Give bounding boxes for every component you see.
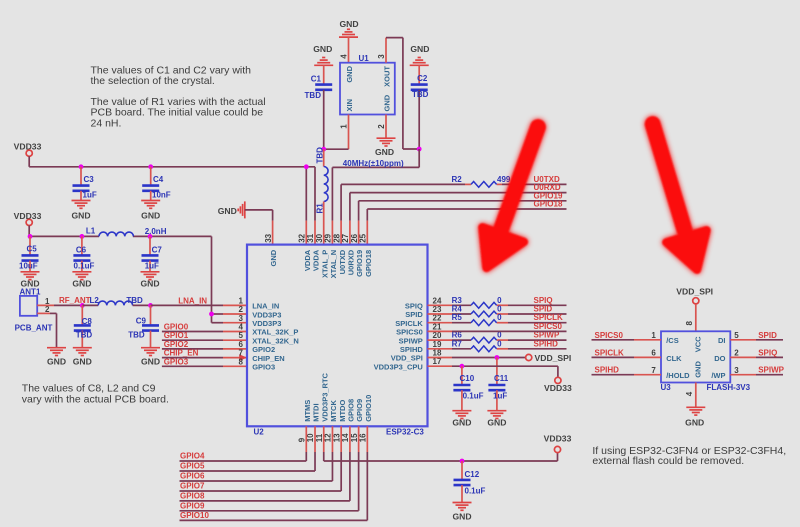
svg-text:11: 11 <box>315 433 324 442</box>
svg-text:CHIP_EN: CHIP_EN <box>164 349 199 358</box>
svg-text:GPIO19: GPIO19 <box>355 250 364 277</box>
svg-text:/HOLD: /HOLD <box>666 371 690 380</box>
svg-text:XTAL_N: XTAL_N <box>329 250 338 279</box>
wire GPIO3 stub <box>162 365 247 367</box>
svg-text:SPIQ: SPIQ <box>405 302 423 311</box>
svg-text:VDD_SPI: VDD_SPI <box>535 353 572 363</box>
net label GPIO6 <box>180 472 205 481</box>
svg-text:GND: GND <box>685 418 704 428</box>
svg-text:LNA_IN: LNA_IN <box>178 296 207 305</box>
svg-text:19: 19 <box>433 340 442 349</box>
svg-text:RF_ANT: RF_ANT <box>59 296 91 305</box>
wire GPIO8 <box>180 426 350 501</box>
svg-text:GPIO10: GPIO10 <box>364 395 373 422</box>
svg-text:32: 32 <box>298 233 307 242</box>
net label SPIQ (flash) <box>758 348 777 357</box>
svg-text:VDD3P3_RTC: VDD3P3_RTC <box>320 372 329 421</box>
wire flash SPID <box>730 339 783 341</box>
node junction C7 <box>148 234 153 239</box>
resistor R4 <box>452 305 503 317</box>
svg-text:16: 16 <box>359 433 368 442</box>
svg-text:24 nH.: 24 nH. <box>91 117 122 129</box>
svg-text:SPIWP: SPIWP <box>399 336 423 345</box>
crystal U1 <box>340 54 395 115</box>
svg-text:0.1uF: 0.1uF <box>463 391 484 400</box>
inductor R1 <box>315 147 328 245</box>
svg-text:MTDO: MTDO <box>338 400 347 422</box>
U3 pin names <box>666 336 725 380</box>
wire LNA_IN <box>151 304 248 306</box>
power port VDD_SPI (pin18) <box>526 353 572 363</box>
svg-text:1: 1 <box>651 331 656 340</box>
svg-text:GND: GND <box>141 211 160 221</box>
U2 left pin numbers <box>239 296 244 366</box>
svg-text:VDD33: VDD33 <box>544 434 572 444</box>
svg-text:GND: GND <box>218 206 237 216</box>
svg-text:TBD: TBD <box>412 90 429 99</box>
resistor R2 <box>452 175 511 187</box>
svg-text:GND: GND <box>452 512 471 522</box>
capacitor C10 <box>453 366 483 411</box>
resistor R5 <box>452 313 503 325</box>
svg-text:C3: C3 <box>84 175 95 184</box>
svg-text:GPIO18: GPIO18 <box>364 250 373 277</box>
node junction C3 <box>79 164 84 169</box>
svg-text:C12: C12 <box>465 470 480 479</box>
svg-text:ANT1: ANT1 <box>20 288 41 297</box>
svg-text:GPIO0: GPIO0 <box>164 323 189 332</box>
note about C1 C2 R1 values <box>91 65 266 130</box>
svg-text:R7: R7 <box>452 339 463 348</box>
svg-text:VDD3P3_CPU: VDD3P3_CPU <box>374 362 423 371</box>
wire pin31 drop <box>314 167 316 245</box>
wire flash SPIHD <box>592 374 662 376</box>
svg-text:8: 8 <box>239 357 244 366</box>
svg-text:SPICS0: SPICS0 <box>595 331 624 340</box>
U2 bottom pin numbers <box>298 433 368 442</box>
antenna ANT1 <box>15 288 53 333</box>
capacitor C3 <box>73 167 97 201</box>
node junction VDD3P3 <box>209 312 214 317</box>
svg-text:VDD33: VDD33 <box>544 383 572 393</box>
svg-text:GND: GND <box>313 44 332 54</box>
svg-text:C10: C10 <box>460 374 475 383</box>
resistor R6 <box>452 331 503 343</box>
svg-text:1: 1 <box>239 296 244 305</box>
svg-text:40MHz(±10ppm): 40MHz(±10ppm) <box>343 159 404 168</box>
svg-text:28: 28 <box>332 233 341 242</box>
wire XTAL_N <box>332 149 419 245</box>
wire flash SPICLK <box>592 356 662 358</box>
U3 pin numbers <box>651 321 739 397</box>
svg-text:SPIHD: SPIHD <box>595 366 620 375</box>
svg-text:499: 499 <box>497 175 511 184</box>
svg-text:3: 3 <box>734 366 739 375</box>
wire SPIHD pin <box>428 348 567 350</box>
svg-text:GND: GND <box>71 211 90 221</box>
net label SPIWP <box>534 331 560 340</box>
svg-text:8: 8 <box>685 321 694 326</box>
svg-text:0: 0 <box>497 305 502 314</box>
net label GPIO8 <box>180 491 205 500</box>
capacitor C1 <box>305 65 333 149</box>
net label GPIO2 <box>164 340 189 349</box>
svg-text:TBD: TBD <box>76 331 93 340</box>
net label GPIO4 <box>180 452 205 461</box>
svg-text:0: 0 <box>497 313 502 322</box>
svg-text:GPIO10: GPIO10 <box>180 511 209 520</box>
capacitor C6 <box>73 236 94 271</box>
svg-text:15: 15 <box>350 433 359 442</box>
svg-text:GND: GND <box>140 279 159 289</box>
svg-text:R3: R3 <box>452 296 463 305</box>
svg-text:GPIO2: GPIO2 <box>164 340 189 349</box>
svg-text:3: 3 <box>239 314 244 323</box>
svg-text:SPICLK: SPICLK <box>395 319 423 328</box>
svg-text:31: 31 <box>306 233 315 242</box>
wire U0RXD pin27 <box>350 193 567 245</box>
svg-text:GPIO5: GPIO5 <box>180 462 205 471</box>
net label GPIO1 <box>164 331 189 340</box>
wire CHIP_EN stub <box>162 357 247 359</box>
wire U1 pin2 to ground <box>385 115 387 139</box>
svg-text:SPICS0: SPICS0 <box>534 322 563 331</box>
annotation arrow left <box>482 127 538 268</box>
svg-text:10uF: 10uF <box>19 261 38 270</box>
capacitor C9 <box>128 305 159 347</box>
svg-text:10nF: 10nF <box>152 191 171 200</box>
net label LNA_IN <box>178 296 207 305</box>
note about external flash removal <box>592 445 786 467</box>
svg-text:5: 5 <box>239 331 244 340</box>
svg-text:FLASH-3V3: FLASH-3V3 <box>707 383 751 392</box>
wire SPID pin <box>428 313 567 315</box>
svg-text:GPIO9: GPIO9 <box>355 399 364 422</box>
svg-text:12: 12 <box>324 433 333 442</box>
wire U0TXD pin28 <box>341 184 566 244</box>
svg-text:U2: U2 <box>254 427 265 436</box>
wire GPIO19 pin26 <box>359 201 567 245</box>
capacitor C7 <box>142 236 163 271</box>
net label SPICLK <box>534 313 564 322</box>
svg-text:9: 9 <box>298 437 307 442</box>
svg-text:6: 6 <box>239 340 244 349</box>
svg-text:PCB_ANT: PCB_ANT <box>15 323 53 332</box>
svg-text:C4: C4 <box>153 175 164 184</box>
node XOUT junction <box>417 147 422 152</box>
U2 right pin names <box>374 302 424 372</box>
svg-text:SPIHD: SPIHD <box>400 345 424 354</box>
svg-text:CLK: CLK <box>666 354 682 363</box>
resistor R7 <box>452 339 503 351</box>
net label U0TXD <box>534 175 560 184</box>
svg-text:GPIO9: GPIO9 <box>180 501 205 510</box>
svg-text:SPICLK: SPICLK <box>534 313 564 322</box>
node junction C12 <box>460 459 465 464</box>
svg-text:GND: GND <box>73 356 92 366</box>
svg-text:27: 27 <box>341 233 350 242</box>
node junction C9 <box>148 303 153 308</box>
svg-text:1: 1 <box>339 124 348 129</box>
wire GPIO5 <box>180 426 316 471</box>
net label GPIO5 <box>180 462 205 471</box>
net label SPICS0 (flash) <box>595 331 624 340</box>
wire GPIO9 <box>180 426 359 511</box>
svg-text:the selection of the crystal.: the selection of the crystal. <box>91 75 215 87</box>
svg-text:GND: GND <box>452 417 471 427</box>
svg-text:U0RXD: U0RXD <box>347 249 356 275</box>
svg-text:20: 20 <box>433 331 442 340</box>
svg-text:SPICLK: SPICLK <box>595 348 625 357</box>
node junction VDDA <box>304 164 309 169</box>
ground C3 <box>71 201 90 221</box>
svg-text:4: 4 <box>239 323 244 332</box>
svg-text:29: 29 <box>324 233 333 242</box>
wire GPIO0 stub <box>162 331 247 333</box>
svg-text:C1: C1 <box>311 74 322 83</box>
ground C8 <box>73 348 92 367</box>
svg-text:2: 2 <box>377 124 386 129</box>
svg-text:vary with the actual PCB board: vary with the actual PCB board. <box>22 393 169 405</box>
svg-text:U1: U1 <box>359 54 370 63</box>
svg-text:0: 0 <box>497 339 502 348</box>
svg-text:0: 0 <box>497 296 502 305</box>
svg-text:C6: C6 <box>76 245 87 254</box>
power port VDD_SPI (flash) <box>676 286 713 304</box>
svg-text:C5: C5 <box>27 245 38 254</box>
svg-text:GND: GND <box>141 356 160 366</box>
ESP32-C3 chip U2 <box>247 245 428 437</box>
U1 pin numbers <box>339 54 386 129</box>
wire ANT1 pin2 to ground <box>37 313 56 347</box>
svg-text:GND: GND <box>487 417 506 427</box>
svg-text:SPIQ: SPIQ <box>758 348 777 357</box>
svg-text:GPIO2: GPIO2 <box>252 345 275 354</box>
U2 bottom pin names <box>303 372 373 421</box>
wire flash SPIWP <box>730 374 783 376</box>
svg-text:2.0nH: 2.0nH <box>145 227 167 236</box>
svg-text:SPICS0: SPICS0 <box>396 328 423 337</box>
svg-text:CHIP_EN: CHIP_EN <box>252 354 285 363</box>
ground C9 <box>141 348 160 367</box>
flash chip U3 <box>661 331 751 392</box>
ground C12 <box>452 503 471 522</box>
svg-text:30: 30 <box>315 233 324 242</box>
net label SPIQ <box>534 296 553 305</box>
net label GPIO0 <box>164 323 189 332</box>
net label GPIO18 <box>534 200 563 209</box>
svg-text:SPID: SPID <box>405 310 423 319</box>
svg-text:TBD: TBD <box>128 331 145 340</box>
svg-text:TBD: TBD <box>305 91 322 100</box>
wire flash VCC pin8 <box>695 304 697 331</box>
node junction C11 <box>495 355 500 360</box>
svg-text:VDD_SPI: VDD_SPI <box>391 354 423 363</box>
svg-text:TBD: TBD <box>315 147 324 164</box>
svg-text:VDDA: VDDA <box>303 249 312 271</box>
wire VDD_SPI pin18 <box>428 357 526 359</box>
wire GPIO6 <box>180 426 333 481</box>
svg-text:22: 22 <box>433 314 442 323</box>
ground C6 <box>72 272 91 289</box>
svg-text:14: 14 <box>341 433 350 442</box>
wire SPIQ pin <box>428 304 567 306</box>
svg-text:C11: C11 <box>494 374 509 383</box>
svg-text:10: 10 <box>306 433 315 442</box>
U2 top pin numbers <box>264 233 368 242</box>
capacitor C2 <box>411 65 429 149</box>
svg-text:C9: C9 <box>136 316 147 325</box>
svg-text:MTDI: MTDI <box>312 403 321 421</box>
wire GPIO4 <box>180 426 307 461</box>
net label CHIP_EN <box>164 349 199 358</box>
CHIP_EN input arrow <box>239 354 247 361</box>
svg-text:C2: C2 <box>417 74 428 83</box>
ground U1 pin2 <box>375 138 396 157</box>
svg-text:SPIWP: SPIWP <box>758 366 784 375</box>
svg-text:4: 4 <box>339 54 348 59</box>
node XIN junction <box>321 147 326 152</box>
svg-text:SPIHD: SPIHD <box>534 339 559 348</box>
svg-text:VDD3P3: VDD3P3 <box>252 319 281 328</box>
capacitor C5 <box>19 236 39 271</box>
svg-text:/WP: /WP <box>711 371 725 380</box>
svg-text:3: 3 <box>377 54 386 59</box>
svg-text:VDD_SPI: VDD_SPI <box>676 286 713 296</box>
resistor R3 <box>452 296 503 308</box>
wire U1 pin1 XIN <box>324 115 349 150</box>
svg-text:GPIO3: GPIO3 <box>164 357 189 366</box>
svg-text:XTAL_P: XTAL_P <box>320 250 329 278</box>
svg-text:GND: GND <box>694 361 703 378</box>
svg-text:MTCK: MTCK <box>329 400 338 422</box>
wire RF_ANT <box>37 304 82 306</box>
wire GPIO1 stub <box>162 339 247 341</box>
wire U1 pin3 XOUT to C2 <box>386 38 419 149</box>
annotation arrow right <box>653 124 707 270</box>
svg-text:GND: GND <box>47 356 66 366</box>
svg-text:SPIQ: SPIQ <box>534 296 553 305</box>
svg-text:GND: GND <box>345 65 354 82</box>
wire VDD3P3_CPU pin17 <box>428 366 558 377</box>
ground C11 <box>487 411 506 428</box>
svg-text:23: 23 <box>433 305 442 314</box>
svg-text:VDDA: VDDA <box>312 249 321 271</box>
node junction C5 <box>28 234 33 239</box>
svg-text:L2: L2 <box>90 296 100 305</box>
wire SPICLK pin <box>428 322 567 324</box>
net label SPIHD (flash) <box>595 366 620 375</box>
svg-text:R1: R1 <box>315 203 324 214</box>
capacitor C11 <box>488 374 508 411</box>
svg-text:GPIO1: GPIO1 <box>164 331 189 340</box>
net label GPIO7 <box>180 482 205 491</box>
wire GPIO10 <box>180 426 368 520</box>
power port VDD33 (right mid) <box>544 377 572 393</box>
svg-text:17: 17 <box>433 357 442 366</box>
svg-text:2: 2 <box>239 305 244 314</box>
ground U3 <box>685 407 705 427</box>
ground pin33 <box>218 201 245 218</box>
net label SPIHD <box>534 339 559 348</box>
U2 left pin names <box>252 302 299 372</box>
ANT1 pin numbers <box>45 297 50 314</box>
net label GPIO19 <box>534 191 563 200</box>
svg-text:C8: C8 <box>82 317 93 326</box>
svg-text:R5: R5 <box>452 313 463 322</box>
wire SPICS0 pin21 <box>428 330 567 332</box>
ground ANT1 pin2 <box>47 348 66 367</box>
wire C11 drop <box>496 358 498 386</box>
inductor L2 <box>82 296 150 306</box>
svg-text:U3: U3 <box>661 383 672 392</box>
svg-text:XTAL_32K_N: XTAL_32K_N <box>252 336 299 345</box>
svg-text:GPIO6: GPIO6 <box>180 472 205 481</box>
wire flash GND pin4 <box>695 383 697 408</box>
net label SPID (flash) <box>758 331 777 340</box>
wire pin32 drop <box>305 167 307 245</box>
svg-text:26: 26 <box>350 233 359 242</box>
ground above C1 <box>313 44 333 65</box>
capacitor C8 <box>74 305 93 347</box>
ground C4 <box>141 201 160 221</box>
ground above crystal pin 4 <box>339 19 359 37</box>
net label SPICLK (flash) <box>595 348 625 357</box>
wire pin4 U1 <box>348 37 350 63</box>
svg-text:L1: L1 <box>86 227 96 236</box>
svg-text:GPIO4: GPIO4 <box>180 452 205 461</box>
power port VDD33 (top left) <box>14 142 42 167</box>
svg-text:13: 13 <box>332 433 341 442</box>
svg-text:7: 7 <box>651 366 656 375</box>
svg-text:33: 33 <box>264 233 273 242</box>
node junction C4 <box>148 164 153 169</box>
svg-text:1uF: 1uF <box>145 261 159 270</box>
ground C10 <box>452 411 471 428</box>
svg-text:GND: GND <box>72 279 91 289</box>
svg-text:ESP32-C3: ESP32-C3 <box>386 427 424 436</box>
svg-text:U0TXD: U0TXD <box>338 249 347 274</box>
svg-text:1uF: 1uF <box>493 391 507 400</box>
svg-text:6: 6 <box>651 349 656 358</box>
svg-text:GND: GND <box>382 94 391 111</box>
U2 top pin names <box>269 249 373 278</box>
net label GPIO9 <box>180 501 205 510</box>
svg-text:/CS: /CS <box>666 336 679 345</box>
svg-text:XOUT: XOUT <box>382 66 391 87</box>
svg-text:VCC: VCC <box>694 336 703 352</box>
svg-text:4: 4 <box>685 391 694 396</box>
wire pin33 <box>245 210 273 245</box>
net label SPIWP (flash) <box>758 366 784 375</box>
svg-text:C7: C7 <box>152 245 163 254</box>
svg-text:GND: GND <box>269 249 278 266</box>
svg-text:SPID: SPID <box>534 305 553 314</box>
svg-text:GND: GND <box>339 19 358 29</box>
svg-text:GPIO3: GPIO3 <box>252 363 275 372</box>
ground C7 <box>140 272 159 289</box>
U1 pin names <box>345 65 392 111</box>
svg-text:VDD3P3: VDD3P3 <box>252 310 281 319</box>
svg-text:2: 2 <box>734 349 739 358</box>
net label GPIO3 <box>164 357 189 366</box>
svg-text:DI: DI <box>718 336 726 345</box>
net label SPICS0 <box>534 322 563 331</box>
svg-text:LNA_IN: LNA_IN <box>252 302 279 311</box>
net label GPIO10 <box>180 511 209 520</box>
svg-text:SPID: SPID <box>758 331 777 340</box>
crystal frequency label <box>343 159 404 168</box>
